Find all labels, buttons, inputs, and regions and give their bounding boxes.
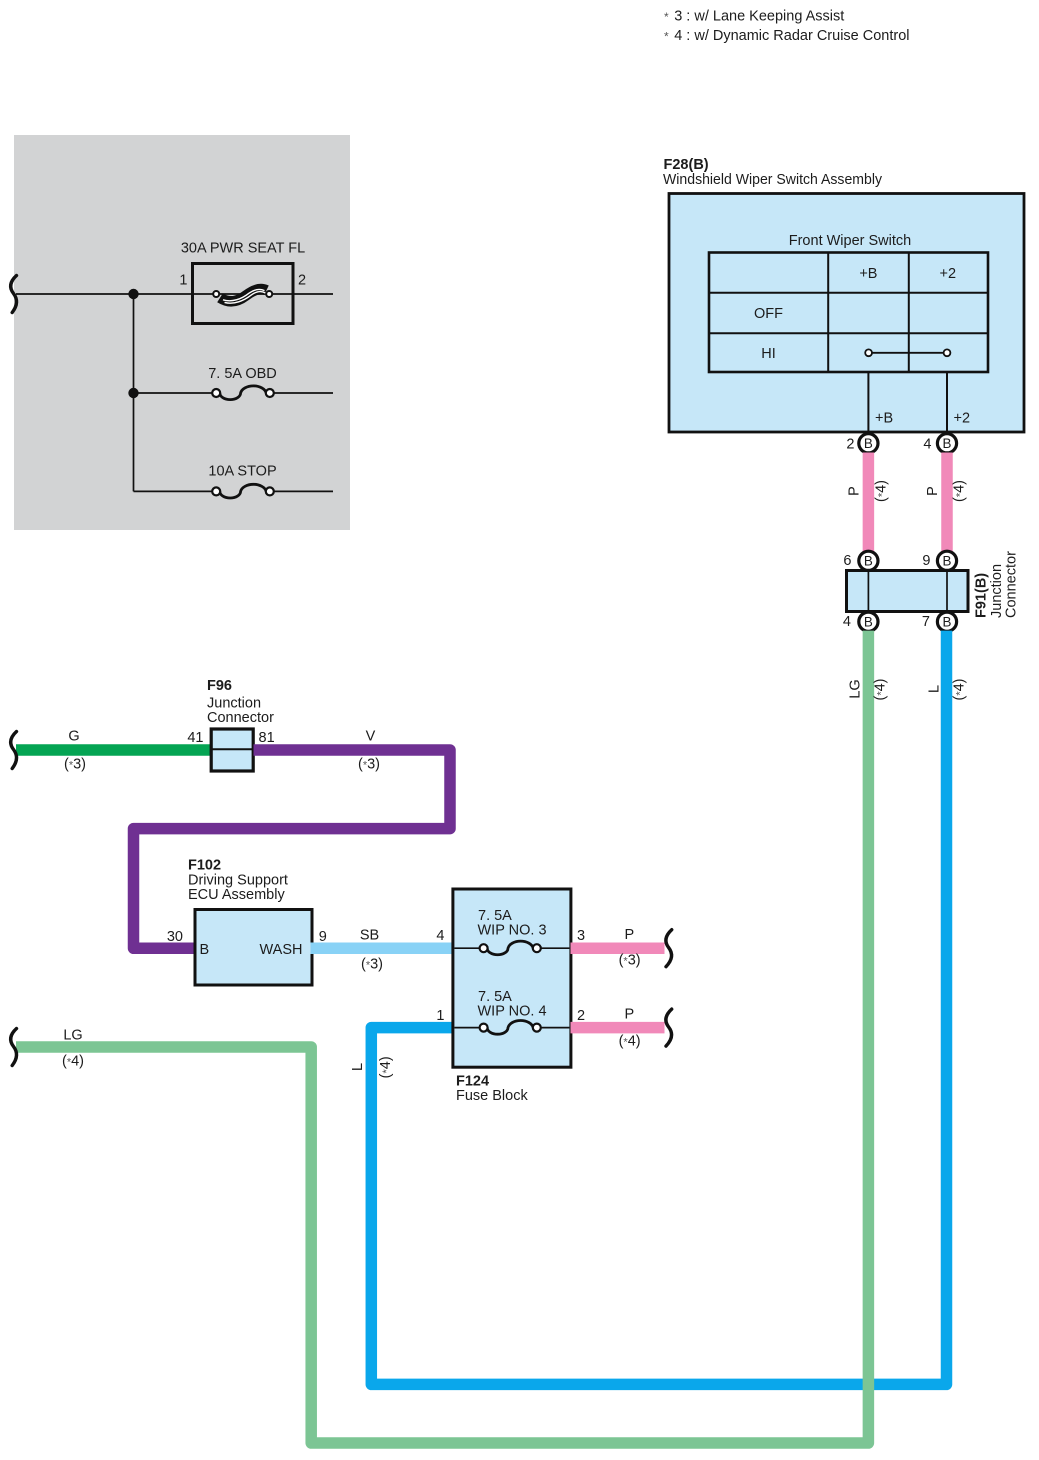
svg-text:B: B [943, 615, 952, 630]
svg-text:B: B [864, 615, 873, 630]
junction connector F96 labels [207, 678, 274, 726]
F124 labels [456, 1073, 528, 1104]
svg-text:(*3): (*3) [361, 957, 383, 973]
svg-text:(*4): (*4) [378, 1056, 394, 1078]
svg-text:30A PWR SEAT FL: 30A PWR SEAT FL [181, 241, 305, 257]
wire G green [16, 744, 212, 756]
svg-text:V: V [366, 729, 376, 745]
fuse WIP NO.4 symbol [454, 1021, 569, 1035]
svg-text:F91(B): F91(B) [974, 573, 990, 618]
wire V purple [134, 750, 451, 948]
svg-text:(*4): (*4) [952, 480, 968, 502]
svg-text:7. 5A: 7. 5A [478, 908, 512, 924]
svg-text:(*3): (*3) [64, 757, 86, 773]
svg-text:LG: LG [63, 1028, 82, 1044]
wire main feed [16, 294, 333, 491]
svg-text:81: 81 [259, 730, 275, 746]
svg-text:B: B [864, 554, 873, 569]
svg-text:+B: +B [859, 266, 877, 282]
svg-text:(*4): (*4) [62, 1054, 84, 1070]
fusible link FL symbol [213, 289, 272, 303]
svg-text:Windshield Wiper Switch Assemb: Windshield Wiper Switch Assembly [663, 172, 883, 188]
fuse WIP NO.4 label [478, 989, 547, 1020]
fuse block F124 body [453, 889, 571, 1067]
node junction B [128, 388, 138, 398]
svg-text:1: 1 [436, 1008, 444, 1024]
pin 4 terminal B [937, 434, 956, 453]
continuation arc LG left [11, 1029, 17, 1066]
svg-text:F124: F124 [456, 1073, 489, 1089]
svg-text:Connector: Connector [1004, 551, 1020, 618]
svg-text:(*4): (*4) [873, 678, 889, 700]
pin 9 terminal B [937, 551, 956, 570]
svg-text:7: 7 [922, 614, 930, 630]
svg-text:P: P [925, 486, 941, 496]
node junction A [128, 289, 138, 299]
wire +2 internal [946, 372, 948, 433]
svg-text:2: 2 [846, 436, 854, 452]
svg-text:Connector: Connector [207, 710, 274, 726]
F91(B) rotated label [974, 551, 1020, 618]
continuation arc P WIP4 [666, 1009, 672, 1046]
svg-text:2: 2 [577, 1008, 585, 1024]
switch contact HI [865, 349, 950, 356]
svg-text:L: L [927, 685, 943, 693]
svg-text:B: B [864, 436, 873, 451]
pin 2 terminal B [859, 434, 878, 453]
svg-text:P: P [624, 1006, 634, 1022]
svg-text:G: G [68, 729, 79, 745]
note *3 legend [664, 9, 910, 45]
svg-text:F28(B): F28(B) [664, 157, 709, 173]
switch table [709, 253, 988, 373]
fuse 10A STOP symbol [212, 484, 274, 498]
svg-text:F102: F102 [188, 858, 221, 874]
svg-text:4: 4 [436, 928, 444, 944]
svg-text:7. 5A: 7. 5A [478, 989, 512, 1005]
svg-text:4: 4 [843, 614, 851, 630]
junction connector F91(B) body [847, 571, 969, 612]
svg-text:WASH: WASH [260, 942, 303, 958]
svg-text:41: 41 [187, 730, 203, 746]
svg-text:6: 6 [843, 553, 851, 569]
svg-text:B: B [943, 436, 952, 451]
svg-text:(*3): (*3) [358, 757, 380, 773]
fusible link box [193, 264, 294, 324]
wire P pin4 [941, 453, 953, 552]
svg-text:WIP NO. 4: WIP NO. 4 [478, 1004, 547, 1020]
svg-text:(*4): (*4) [619, 1034, 641, 1050]
fuse 7.5A OBD symbol [212, 386, 274, 400]
continuation arc P WIP3 [666, 930, 672, 967]
continuation arc G [11, 732, 17, 769]
svg-text:SB: SB [360, 928, 379, 944]
svg-text:L: L [350, 1063, 366, 1071]
power source gray block [14, 135, 350, 530]
svg-text:B: B [943, 554, 952, 569]
svg-text:(*4): (*4) [952, 678, 968, 700]
svg-text:2: 2 [298, 272, 306, 288]
svg-text:Front Wiper Switch: Front Wiper Switch [789, 233, 911, 249]
svg-text:F96: F96 [207, 678, 232, 694]
wire LG light green [16, 631, 868, 1443]
svg-text:+B: +B [875, 411, 893, 427]
svg-text:3: 3 [577, 928, 585, 944]
svg-text:P: P [847, 486, 863, 496]
ECU F102 body [195, 910, 312, 986]
svg-text:(*4): (*4) [874, 480, 890, 502]
connector F28(B) body [669, 194, 1024, 433]
wire P pin2 [863, 453, 875, 552]
svg-text:10A STOP: 10A STOP [208, 464, 276, 480]
fuse WIP NO.3 label [478, 908, 547, 939]
svg-text:* 3 : w/ Lane Keeping Assist: * 3 : w/ Lane Keeping Assist [664, 9, 844, 25]
wire L blue [371, 631, 946, 1385]
svg-text:HI: HI [761, 346, 776, 362]
svg-text:Fuse Block: Fuse Block [456, 1088, 528, 1104]
svg-text:OFF: OFF [754, 306, 783, 322]
wire SB [311, 943, 454, 955]
svg-text:4: 4 [923, 436, 931, 452]
pin 7 terminal B bottom [937, 612, 956, 631]
continuation arc main feed [11, 276, 17, 313]
wire +B internal [867, 372, 869, 433]
svg-text:9: 9 [922, 553, 930, 569]
svg-text:(*3): (*3) [619, 953, 641, 969]
svg-text:+2: +2 [954, 411, 971, 427]
pin 4 terminal B bottom [859, 612, 878, 631]
svg-text:WIP NO. 3: WIP NO. 3 [478, 922, 547, 938]
svg-text:B: B [200, 942, 210, 958]
svg-text:ECU Assembly: ECU Assembly [188, 887, 285, 903]
junction connector F96 body [211, 729, 253, 771]
ECU F102 labels [188, 858, 288, 903]
svg-text:* 4 : w/ Dynamic Radar Cruise: * 4 : w/ Dynamic Radar Cruise Control [664, 28, 910, 44]
fuse WIP NO.3 symbol [454, 941, 569, 955]
svg-text:+2: +2 [940, 266, 957, 282]
svg-text:1: 1 [179, 272, 187, 288]
wire P WIP3 [571, 942, 665, 954]
wire P WIP4 [571, 1022, 665, 1034]
svg-text:7. 5A OBD: 7. 5A OBD [208, 366, 277, 382]
svg-text:LG: LG [848, 679, 864, 698]
pin 6 terminal B [859, 551, 878, 570]
svg-text:P: P [624, 927, 634, 943]
svg-text:30: 30 [167, 929, 183, 945]
